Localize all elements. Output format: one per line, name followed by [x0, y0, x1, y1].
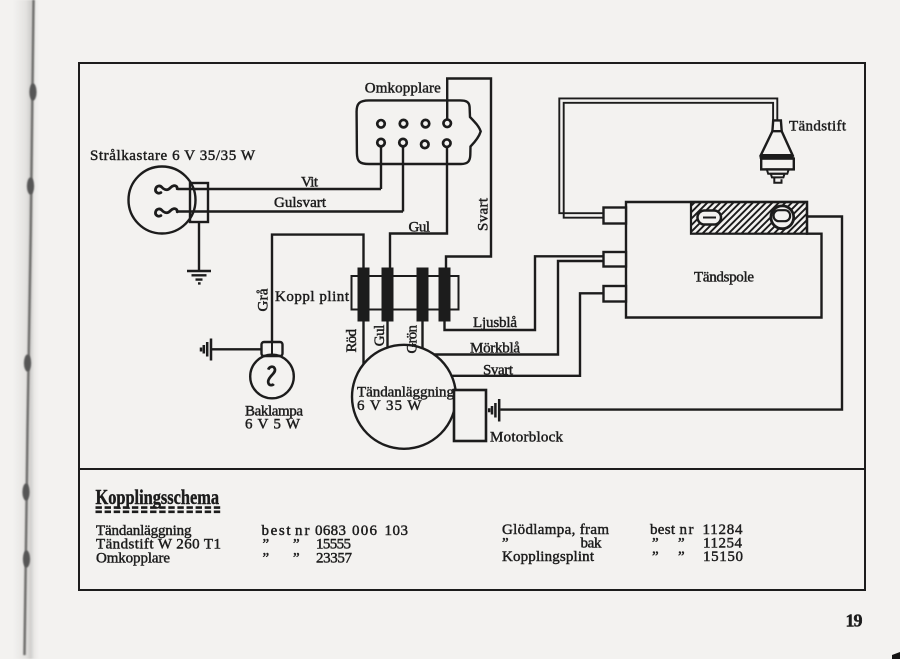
terminal block bar 1	[358, 268, 370, 322]
wire Moerkblaa: ignition circle to coil connector 2	[434, 261, 603, 355]
title underline dashes	[96, 508, 222, 512]
switch terminal top 1	[377, 120, 385, 128]
binding bump 2	[27, 178, 34, 195]
svg-text:Vit: Vit	[301, 174, 319, 190]
wire Graa: terminal block bar1 to tail lamp	[272, 235, 364, 342]
ground (motorblock)	[489, 399, 499, 422]
HT cable double line to spark plug	[559, 98, 777, 213]
svg-text:19: 19	[846, 610, 863, 630]
coil slot screw	[698, 211, 722, 225]
Motorblock box	[454, 390, 486, 441]
svg-text:Motorblock: Motorblock	[490, 430, 564, 446]
svg-text:23357: 23357	[316, 550, 353, 566]
svg-text:Gul: Gul	[372, 325, 388, 347]
wire Ljusblaa: bar4 to coil connector 2	[445, 256, 604, 330]
tail lamp ground wire	[212, 348, 262, 350]
ground (headlight)	[187, 271, 211, 283]
binding shadow band	[13, 0, 39, 659]
ground (tail lamp)	[201, 339, 211, 361]
binding bump 5	[23, 551, 30, 568]
switch terminal bottom 4	[443, 139, 451, 147]
corner mark bottom right	[892, 652, 900, 659]
binding bump 1	[29, 84, 36, 101]
svg-text:Svart: Svart	[476, 197, 492, 231]
svg-text:”: ”	[652, 549, 659, 565]
svg-text:006: 006	[352, 523, 378, 539]
coil connector 2	[604, 252, 627, 267]
switch terminal top 4	[443, 120, 451, 128]
tail lamp cap	[262, 342, 283, 356]
svg-text:”: ”	[293, 550, 300, 566]
wire Groen: bar3 down to ignition circle	[421, 322, 423, 349]
svg-text:Tändspole: Tändspole	[694, 270, 754, 286]
headlight lamp circle	[129, 167, 196, 234]
svg-text:15150: 15150	[703, 549, 743, 565]
switch terminal bottom 3	[421, 141, 429, 149]
headlight filament upper	[155, 186, 177, 194]
coil HT tower	[771, 206, 794, 229]
svg-text:Gul: Gul	[409, 220, 431, 236]
wire Gul2: bar2 down to ignition circle	[386, 322, 388, 348]
terminal block outline Koppl plint	[352, 276, 459, 310]
svg-text:Strålkastare 6 V 35/35 W: Strålkastare 6 V 35/35 W	[90, 148, 256, 164]
svg-text:Grå: Grå	[255, 288, 271, 311]
switch terminal top 3	[422, 120, 430, 128]
wire Roed: bar1 down to ignition circle	[362, 322, 364, 365]
wire Gulsvart: headlight to switch terminal 2	[178, 147, 403, 212]
wire Svart2: ignition circle to coil connector 3	[452, 293, 604, 376]
switch terminal bottom 2	[399, 139, 407, 147]
svg-text:Koppl plint: Koppl plint	[275, 289, 350, 305]
svg-text:Gulsvart: Gulsvart	[274, 195, 327, 211]
svg-text:Röd: Röd	[344, 329, 360, 353]
spark plug Taendstift	[772, 120, 781, 131]
svg-text:Omkopplare: Omkopplare	[365, 80, 441, 96]
wire motorblock ground to coil tower	[501, 217, 843, 410]
terminal block bar 2	[382, 268, 394, 322]
svg-text:Svart: Svart	[483, 362, 514, 378]
terminal block bar 3	[417, 268, 429, 322]
headlight socket	[190, 183, 208, 222]
coil hatched cap	[691, 202, 807, 234]
wire Gul: switch bottom terminal 4 down to terminal block bar 2	[390, 147, 447, 268]
schematic border frame	[79, 63, 865, 590]
binding bump 4	[22, 484, 29, 501]
tail lamp filament	[268, 367, 275, 385]
wire Svart: switch top terminal over to terminal block bar 4	[446, 79, 491, 269]
ignition unit circle Taendanlaeggning	[352, 345, 456, 449]
svg-text:Kopplingsschema: Kopplingsschema	[96, 485, 220, 509]
ignition coil box Taendspole	[626, 202, 822, 318]
svg-text:Mörkblå: Mörkblå	[470, 341, 520, 357]
binding bump 3	[24, 355, 31, 372]
tail lamp circle Baklampa	[250, 355, 294, 399]
svg-text:Grön: Grön	[404, 325, 420, 354]
svg-text:Omkopplare: Omkopplare	[96, 550, 170, 566]
binding wire line	[25, 0, 34, 655]
terminal block bar 4	[439, 268, 451, 322]
svg-text:”: ”	[678, 549, 685, 565]
parts list divider	[79, 468, 865, 470]
switch terminal bottom 1	[377, 139, 385, 147]
svg-text:6 V 35 W: 6 V 35 W	[357, 398, 422, 414]
svg-text:Kopplingsplint: Kopplingsplint	[502, 549, 595, 565]
switch terminal top 2	[400, 120, 408, 128]
coil connector 3	[604, 286, 627, 302]
headlight filament lower	[155, 209, 177, 217]
switch Omkopplare body	[357, 100, 481, 164]
svg-text:6 V 5 W: 6 V 5 W	[245, 416, 301, 432]
svg-text:”: ”	[263, 550, 270, 566]
headlight ground wire	[198, 222, 200, 271]
svg-text:103: 103	[385, 523, 409, 539]
svg-text:Tändstift: Tändstift	[789, 119, 847, 135]
svg-text:Ljusblå: Ljusblå	[473, 315, 517, 331]
wire Vit: headlight to switch terminal 1	[178, 147, 381, 189]
coil connector 1	[604, 208, 627, 224]
